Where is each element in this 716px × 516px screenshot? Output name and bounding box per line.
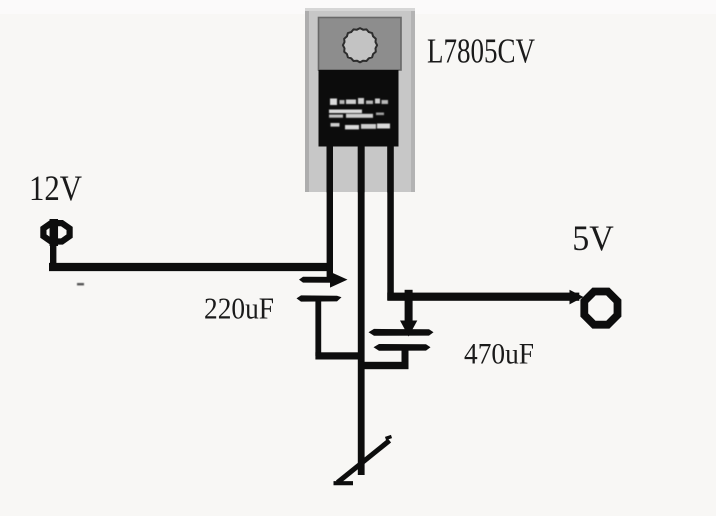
regulator U1 pin 1 (input) leg bbox=[327, 147, 333, 193]
wire: C1 to ground rail bbox=[315, 352, 364, 359]
capacitor C2 470uF bottom plate bbox=[374, 344, 431, 351]
regulator U1 TO-220 package case bbox=[305, 8, 415, 192]
svg-text:470uF: 470uF bbox=[464, 337, 534, 370]
stray speck under 12V wire bbox=[77, 283, 84, 285]
12V input terminal (plug) bbox=[43, 219, 69, 246]
wire: C2 to ground rail bbox=[359, 362, 409, 369]
regulator U1 pin 3 (output) leg bbox=[387, 147, 393, 193]
wire: pin 3 down to output corner bbox=[387, 146, 394, 300]
wire: 12V plug stem down bbox=[50, 244, 56, 264]
regulator U1 black molded body bbox=[319, 70, 399, 147]
arrowhead down onto C2 bbox=[400, 321, 417, 337]
wire: output horizontal run to 5V terminal bbox=[387, 293, 579, 301]
output arrowhead at 5V terminal bbox=[570, 290, 584, 305]
capacitor C1 220uF top plate bbox=[299, 277, 335, 283]
svg-text:L7805CV: L7805CV bbox=[427, 32, 535, 71]
regulator U1 pin 2 (ground) leg bbox=[358, 147, 365, 193]
wire: 12V horizontal run to pin 1 node bbox=[49, 263, 333, 271]
wire: pin 1 down to input node bbox=[327, 146, 333, 279]
5V output terminal ring bbox=[584, 292, 617, 325]
wire: pin 2 ground rail down bbox=[358, 146, 365, 475]
wire: stub down to C2 bbox=[405, 290, 413, 324]
regulator U1 metal tab bbox=[319, 18, 402, 71]
regulator U1 part marking smudges bbox=[329, 98, 390, 129]
wire: C1 lead down bbox=[315, 299, 321, 356]
regulator U1 mounting hole bbox=[343, 28, 377, 62]
capacitor C1 220uF bottom plate bbox=[297, 295, 342, 301]
ground symbol bbox=[334, 437, 392, 484]
svg-text:220uF: 220uF bbox=[204, 292, 274, 326]
node A: input junction arrowhead bbox=[330, 272, 348, 288]
capacitor C2 470uF top plate bbox=[369, 329, 434, 336]
svg-text:5V: 5V bbox=[572, 218, 614, 258]
svg-text:12V: 12V bbox=[29, 168, 82, 208]
wire: C2 lead down bbox=[402, 348, 409, 369]
